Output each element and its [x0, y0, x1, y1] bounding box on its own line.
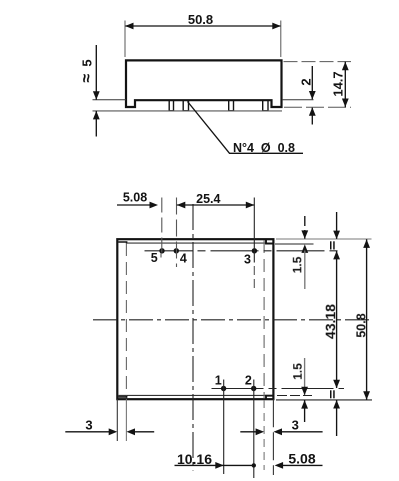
text 1.5 top — [290, 256, 304, 273]
dimension 43.18 — [330, 212, 340, 436]
right outer-bottom extension — [276, 399, 372, 401]
dimension 1.5 bottom — [301, 358, 308, 422]
svg-text:14.7: 14.7 — [331, 71, 346, 96]
inner bottom line — [119, 394, 273, 396]
pin 5 dot — [159, 248, 164, 253]
text 50.8 right — [354, 313, 368, 337]
horizontal centerline — [93, 319, 370, 321]
dimension 3 left — [65, 428, 154, 435]
text 43.18 — [322, 304, 338, 339]
seating plane line — [93, 110, 283, 112]
leader line N4 — [188, 102, 304, 154]
body bottom left extension line — [93, 99, 127, 101]
right outer-top extension — [276, 238, 372, 240]
svg-text:10.16: 10.16 — [177, 451, 212, 467]
dimension 50.8 top — [125, 23, 281, 30]
body bottom right extension line — [282, 99, 314, 101]
svg-text:50.8: 50.8 — [354, 313, 368, 337]
svg-text:2: 2 — [299, 78, 314, 85]
pin 1 extension line — [223, 380, 225, 475]
pin 4 dot — [174, 248, 179, 253]
foot bottom right extension line — [284, 106, 351, 108]
extension line right 50.8 — [280, 21, 282, 58]
corner notch bottom-right — [266, 396, 273, 400]
pin 3 extension line — [253, 198, 255, 263]
text 1.5 bottom — [291, 363, 305, 380]
svg-text:5.08: 5.08 — [288, 450, 315, 466]
right inner extension below — [263, 400, 265, 470]
vertical centerline — [192, 204, 194, 471]
inner left line — [125, 243, 127, 398]
dimension 1.5 top — [301, 216, 308, 289]
pin B (side view) — [183, 100, 188, 111]
svg-text:1.5: 1.5 — [290, 256, 304, 273]
component body outline with feet — [126, 60, 282, 107]
outer square — [117, 239, 273, 399]
pin 5 extension line — [161, 198, 163, 254]
corner notch bottom-left — [118, 396, 126, 397]
pin 2 dot — [251, 386, 256, 391]
svg-text:5.08: 5.08 — [123, 191, 147, 205]
pin row line top — [145, 250, 342, 252]
body top right extension line — [284, 61, 352, 63]
svg-text:50.8: 50.8 — [188, 12, 213, 27]
pin 2 extension line — [253, 380, 255, 479]
svg-text:3: 3 — [292, 417, 299, 432]
svg-text:1: 1 — [215, 374, 222, 388]
dimension 5.08 top — [117, 202, 158, 209]
pin row line bottom — [212, 388, 345, 390]
svg-text:5: 5 — [151, 251, 158, 265]
svg-text:3: 3 — [85, 418, 92, 433]
inner right line — [263, 240, 265, 399]
pin 1 dot — [221, 386, 226, 391]
svg-text:4: 4 — [180, 252, 187, 266]
dimension 3 right — [240, 428, 322, 435]
svg-text:1.5: 1.5 — [291, 363, 305, 380]
dimension 10.16 — [175, 462, 257, 469]
left outer extension below — [116, 399, 118, 441]
svg-text:N°4 Ø 0.8: N°4 Ø 0.8 — [233, 141, 295, 155]
dimension 5.08 bottom — [275, 462, 323, 469]
dimension 50.8 right — [363, 239, 370, 400]
right inner-bottom extension — [277, 395, 312, 397]
corner notch top-right — [266, 239, 273, 243]
pin 3 extension dashes below — [253, 266, 255, 289]
pin 4 extension line — [176, 198, 178, 268]
svg-text:3: 3 — [244, 253, 251, 267]
text 14.7 — [331, 71, 346, 96]
corner notch top-left — [118, 242, 126, 243]
svg-text:43.18: 43.18 — [322, 304, 338, 339]
pin 3 dot — [252, 248, 257, 253]
dimension 14.7 — [342, 62, 349, 108]
text approx 5 — [79, 59, 96, 82]
pin A (side view) — [169, 100, 173, 111]
svg-text:2: 2 — [245, 374, 252, 388]
svg-text:25.4: 25.4 — [196, 192, 220, 206]
right inner-top extension — [275, 243, 314, 245]
pin C (side view) — [229, 100, 234, 111]
inner top line — [127, 242, 273, 244]
right outer extension below — [272, 399, 274, 475]
svg-text:≈ 5: ≈ 5 — [79, 59, 96, 82]
text 2 — [299, 78, 314, 85]
pin 5 stub below dot — [160, 253, 162, 258]
pin D (side view) — [263, 100, 268, 111]
dimension 2 — [309, 66, 316, 125]
dimension 25.4 — [177, 202, 255, 209]
left inner extension below — [125, 399, 127, 441]
extension line left 50.8 — [124, 21, 126, 58]
dimension approx 5 — [93, 45, 100, 137]
